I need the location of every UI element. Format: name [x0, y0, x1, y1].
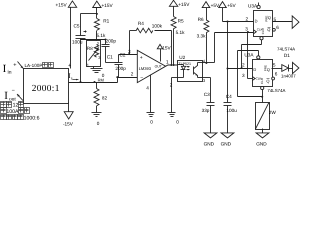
- svg-text:200p: 200p: [106, 39, 117, 44]
- svg-text:in: in: [7, 69, 11, 75]
- svg-text:−: −: [12, 88, 15, 94]
- flip-flop U3A 74LS74 #1: [254, 11, 273, 37]
- svg-text:D: D: [255, 18, 258, 23]
- svg-text:74LS74A: 74LS74A: [267, 88, 285, 93]
- FF1 Q output wire: [273, 21, 293, 23]
- svg-text:C4: C4: [226, 94, 232, 99]
- FF2 PRE bubble + tie wiring: [238, 51, 263, 97]
- svg-text:C2: C2: [120, 52, 126, 57]
- wire FF2 CLK branch: [248, 33, 253, 79]
- svg-text:+5V: +5V: [211, 3, 220, 8]
- svg-text:3: 3: [245, 27, 248, 32]
- op-amp V+ pin with +15V arrow: [157, 44, 162, 61]
- svg-text:C5: C5: [74, 23, 80, 28]
- LA-100P module box: [24, 69, 69, 104]
- power +15V rail for R1: [93, 1, 101, 18]
- svg-text:33p: 33p: [202, 108, 210, 113]
- power +5V rail right: [219, 2, 228, 103]
- svg-text:CLR: CLR: [261, 27, 265, 34]
- svg-text:2: 2: [170, 83, 173, 88]
- svg-text:R4: R4: [138, 21, 144, 26]
- opto LED: [178, 65, 190, 78]
- label Is: [68, 72, 78, 80]
- svg-text:15V: 15V: [162, 45, 171, 50]
- opto pin2 wire to ground: [172, 78, 178, 113]
- svg-text:R6: R6: [198, 17, 204, 22]
- svg-text:+: +: [140, 55, 143, 61]
- ground GND (C3): [204, 133, 217, 138]
- svg-text:2: 2: [242, 63, 245, 68]
- svg-text:U3A: U3A: [244, 52, 254, 57]
- FF1 CLR bubble: [242, 37, 264, 69]
- svg-text:+5V: +5V: [227, 3, 236, 8]
- svg-text:3.3k: 3.3k: [197, 34, 207, 39]
- flip-flop U3A 74LS74 #2: [253, 60, 273, 87]
- svg-text:100u: 100u: [72, 40, 83, 45]
- power +5V rail R6: [202, 2, 210, 21]
- svg-text:LA-100P: LA-100P: [25, 63, 43, 68]
- wire op-amp output: [166, 65, 178, 66]
- svg-text:5.1k: 5.1k: [97, 33, 107, 38]
- FF2 internals: [253, 65, 270, 84]
- potentiometer R8: [87, 41, 101, 69]
- FF2 CLR bubble: [261, 86, 264, 102]
- svg-text:200p: 200p: [115, 66, 126, 71]
- svg-text:+: +: [13, 63, 16, 69]
- svg-text:-15V: -15V: [63, 121, 74, 126]
- FF1 internals: [255, 15, 271, 34]
- ground GND (C4): [221, 133, 234, 138]
- opto transistor: [194, 63, 202, 78]
- op-amp V- pin 4 to ground: [150, 75, 152, 113]
- svg-text:2W: 2W: [269, 110, 277, 115]
- svg-text:1n4007: 1n4007: [281, 73, 296, 78]
- svg-text:2000:1: 2000:1: [32, 84, 60, 94]
- svg-text:2: 2: [131, 71, 134, 76]
- wire op-amp +input: [119, 54, 138, 56]
- output connector arrow 2: [293, 62, 299, 73]
- svg-text:TLP521: TLP521: [178, 62, 191, 66]
- resistor R4 feedback: [130, 28, 172, 64]
- svg-text:0: 0: [97, 121, 100, 126]
- svg-text:I: I: [4, 90, 8, 102]
- svg-text:6: 6: [275, 72, 278, 77]
- wire node A: [81, 39, 106, 41]
- svg-text:PRE: PRE: [264, 16, 268, 22]
- svg-text:R8: R8: [87, 46, 93, 51]
- ground 0 (opto pin2): [168, 113, 176, 117]
- svg-text:C3: C3: [204, 92, 210, 97]
- svg-text:82: 82: [102, 96, 108, 101]
- svg-text:5.1k: 5.1k: [176, 30, 186, 35]
- resistor R1: [94, 19, 99, 31]
- FF2 Q output wire: [272, 68, 282, 70]
- label I_out-: [4, 88, 16, 102]
- svg-text:+15V: +15V: [102, 3, 114, 8]
- svg-text:CLR: CLR: [260, 77, 264, 84]
- svg-text:D1: D1: [284, 53, 290, 58]
- svg-text:C1: C1: [107, 55, 113, 60]
- svg-text:100u: 100u: [226, 108, 237, 113]
- output connector arrow 1: [292, 16, 299, 28]
- svg-text:4: 4: [146, 85, 149, 90]
- FF1 PRE bubble: [257, 3, 260, 9]
- diode D1 1n4007: [282, 65, 293, 72]
- capacitor C5: [76, 14, 87, 83]
- wire op-amp -input: [118, 77, 138, 79]
- CJK blobs 模块: [43, 63, 54, 68]
- svg-text:PRE: PRE: [263, 65, 267, 71]
- varistor RV: [256, 102, 270, 133]
- arrow I_out: [17, 94, 23, 101]
- svg-text:5: 5: [274, 17, 277, 22]
- wire Is output: [69, 82, 118, 84]
- svg-text:0: 0: [150, 119, 153, 124]
- svg-text:2: 2: [246, 17, 249, 22]
- svg-text:3: 3: [128, 49, 131, 54]
- svg-text:1: 1: [166, 59, 169, 64]
- FF2 Qbar bubble: [272, 77, 275, 80]
- svg-text:6: 6: [276, 25, 279, 30]
- capacitor C1: [102, 40, 119, 63]
- resistor R5 pullup: [171, 17, 176, 65]
- svg-text:GND: GND: [256, 141, 267, 146]
- power +15V rail R5: [169, 0, 177, 16]
- svg-text:+: +: [68, 63, 71, 69]
- svg-text:3: 3: [242, 73, 245, 78]
- wire D input FF1: [223, 21, 254, 23]
- svg-text:+15V: +15V: [56, 3, 68, 8]
- capacitor C4: [224, 103, 232, 133]
- svg-text:U2: U2: [179, 55, 185, 60]
- FF1 Qbar bubble: [273, 28, 276, 31]
- optocoupler U2 TLP521 box: [178, 61, 203, 82]
- svg-text:GND: GND: [204, 141, 215, 146]
- ground GND (varistor): [256, 133, 269, 138]
- svg-text:U3A: U3A: [248, 4, 258, 9]
- svg-text:100A: 100A: [6, 109, 19, 115]
- power +15V rail left: [68, 1, 76, 69]
- capacitor C2: [115, 55, 123, 78]
- CJK line2 约100A饱和: [1, 108, 30, 114]
- svg-text:12: 12: [13, 103, 19, 109]
- svg-text:74LS74A: 74LS74A: [277, 46, 295, 51]
- wire FF2 D from +5V: [228, 68, 253, 70]
- ground 0 (op-amp pin4): [147, 113, 155, 117]
- svg-text:RM: RM: [98, 77, 104, 82]
- CJK line3 等效变比1000:6: [1, 115, 24, 120]
- resistor R2: [94, 83, 99, 113]
- opto emitter wire: [202, 78, 211, 103]
- svg-text:+15V: +15V: [178, 2, 190, 7]
- CJK line1 原边12匝: [1, 102, 24, 108]
- svg-text:GND: GND: [221, 141, 232, 146]
- op-amp U1 LM393: [137, 50, 165, 82]
- svg-text:1000:6: 1000:6: [24, 116, 40, 122]
- wire C5 top branch: [81, 13, 97, 15]
- svg-text:Q: Q: [266, 79, 269, 84]
- svg-text:0: 0: [176, 119, 179, 124]
- svg-text:R1: R1: [103, 18, 109, 23]
- FF1 CLK input triangle: [253, 30, 256, 34]
- svg-text:5: 5: [273, 62, 276, 67]
- svg-text:I: I: [3, 63, 7, 75]
- svg-text:R5: R5: [178, 18, 184, 23]
- arrow I_in: [18, 62, 24, 69]
- svg-text:OUT: OUT: [155, 65, 162, 69]
- svg-text:D: D: [253, 67, 256, 72]
- ground 0 (R2): [92, 113, 102, 117]
- capacitor C3: [207, 103, 215, 133]
- svg-text:100k: 100k: [152, 24, 163, 29]
- label I_in+: [3, 63, 17, 76]
- -15V pin of module: [64, 103, 73, 120]
- FF2 CLK input triangle: [252, 77, 255, 81]
- svg-text:LM393: LM393: [139, 66, 152, 71]
- resistor R6: [204, 20, 209, 63]
- svg-text:−: −: [140, 75, 143, 81]
- opto collector wire to CLK trunk: [202, 33, 254, 63]
- node junction +15V/C5: [96, 13, 98, 15]
- ground 0 (R8 wiper): [91, 69, 103, 73]
